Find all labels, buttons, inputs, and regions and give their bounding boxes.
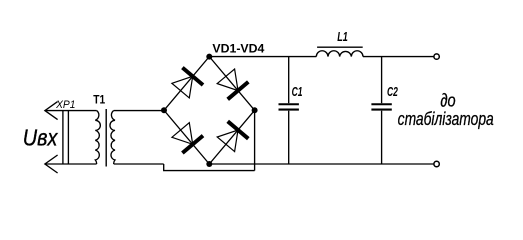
svg-text:∂о: ∂о [440, 90, 455, 111]
svg-text:стабілізатора: стабілізатора [398, 109, 494, 129]
svg-text:L1: L1 [337, 31, 348, 45]
svg-text:Uвх: Uвх [23, 125, 59, 151]
svg-text:C2: C2 [387, 85, 398, 99]
svg-text:VD1-VD4: VD1-VD4 [212, 42, 264, 56]
svg-text:C1: C1 [292, 85, 303, 99]
svg-text:XP1: XP1 [55, 99, 75, 111]
svg-text:T1: T1 [93, 94, 105, 107]
